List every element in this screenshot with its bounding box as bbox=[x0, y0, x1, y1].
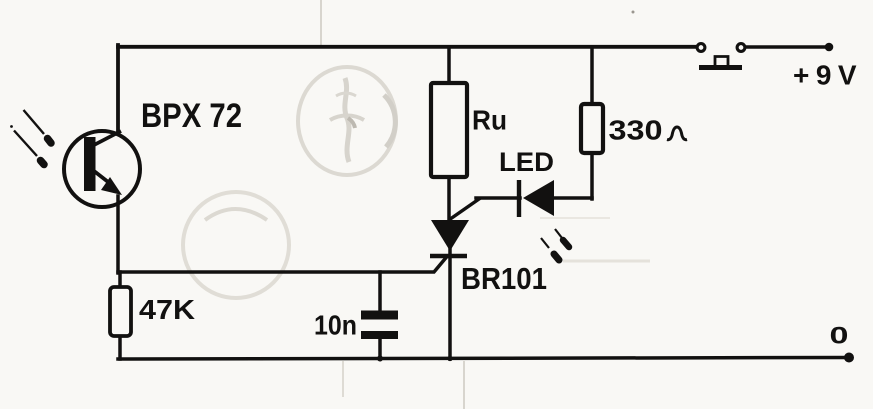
watermark stamp circle upper bbox=[298, 67, 396, 175]
wire emitter vertical bbox=[116, 196, 120, 273]
wire 47K bottom stub bbox=[118, 336, 122, 359]
switch S1 left contact bbox=[697, 44, 705, 52]
node +9V terminal dot bbox=[825, 43, 834, 52]
light arrow 2 bbox=[10, 125, 44, 164]
svg-text:330: 330 bbox=[609, 115, 663, 146]
resistor 330 body bbox=[581, 104, 603, 153]
wire Ru bottom stub / SCR anode bbox=[447, 177, 451, 222]
capacitor C1 top plate bbox=[361, 311, 398, 320]
wire 330 top stub bbox=[590, 47, 594, 104]
faint fold line bottom 2 bbox=[342, 361, 344, 397]
ohm squiggle symbol bbox=[667, 127, 687, 140]
capacitor C1 bottom plate bbox=[361, 331, 398, 339]
svg-text:BPX 72: BPX 72 bbox=[141, 97, 242, 135]
wire Ru top stub bbox=[447, 47, 451, 83]
wire left vertical (collector feed) bbox=[116, 45, 120, 131]
LED D1 triangle bbox=[523, 180, 554, 216]
resistor R 47K body bbox=[110, 287, 131, 336]
LED emission arrow 1 bbox=[555, 229, 569, 247]
wire bottom rail bbox=[118, 358, 849, 360]
svg-text:+9V: +9V bbox=[793, 60, 863, 91]
svg-text:Ru: Ru bbox=[472, 105, 507, 136]
thyristor BR101 cathode bar bbox=[430, 254, 467, 259]
junction dot capacitor/bottom rail bbox=[377, 356, 383, 362]
wire LED to 330 vertical bbox=[590, 152, 594, 199]
svg-text:BR101: BR101 bbox=[461, 261, 547, 296]
phototransistor Q1 BPX72 body circle bbox=[64, 131, 140, 207]
wire SCR cathode vertical bbox=[448, 248, 452, 359]
wire top rail bbox=[118, 45, 697, 49]
wire 47K top stub bbox=[118, 272, 122, 287]
phototransistor base bar bbox=[84, 137, 96, 191]
svg-text:LED: LED bbox=[499, 147, 554, 177]
wire switch to +9V bbox=[745, 45, 827, 49]
switch S1 actuator bar bbox=[699, 65, 742, 70]
phototransistor collector lead bbox=[94, 131, 121, 145]
junction dot SCR cathode/bottom rail bbox=[447, 356, 452, 361]
wire gate horizontal bbox=[118, 257, 447, 273]
wire capacitor top stub bbox=[378, 272, 382, 311]
light arrow 1 bbox=[24, 110, 52, 143]
wire SCR anode to LED diagonal bbox=[451, 199, 479, 219]
svg-text:47K: 47K bbox=[139, 294, 195, 325]
faint fold line bottom bbox=[463, 361, 465, 409]
LED D1 cathode bar bbox=[517, 180, 521, 217]
node 0V terminal dot bbox=[844, 353, 854, 363]
wire LED anode horizontal bbox=[554, 196, 592, 200]
resistor Ru body bbox=[431, 83, 467, 177]
phototransistor emitter lead bbox=[94, 171, 112, 185]
watermark stamp circle lower bbox=[183, 192, 289, 298]
svg-text:10n: 10n bbox=[314, 310, 357, 341]
faint streaks bbox=[563, 260, 650, 263]
switch S1 right contact bbox=[737, 44, 745, 52]
wire LED cathode horizontal bbox=[476, 196, 520, 200]
speck bbox=[632, 11, 635, 14]
phototransistor emitter arrowhead bbox=[101, 177, 122, 195]
LED emission arrow 2 bbox=[541, 238, 559, 260]
faint fold line top bbox=[320, 0, 322, 45]
wire capacitor bottom stub bbox=[378, 338, 382, 359]
svg-text:0: 0 bbox=[830, 322, 849, 349]
switch S1 button bump bbox=[715, 57, 728, 67]
thyristor BR101 triangle bbox=[431, 220, 469, 251]
